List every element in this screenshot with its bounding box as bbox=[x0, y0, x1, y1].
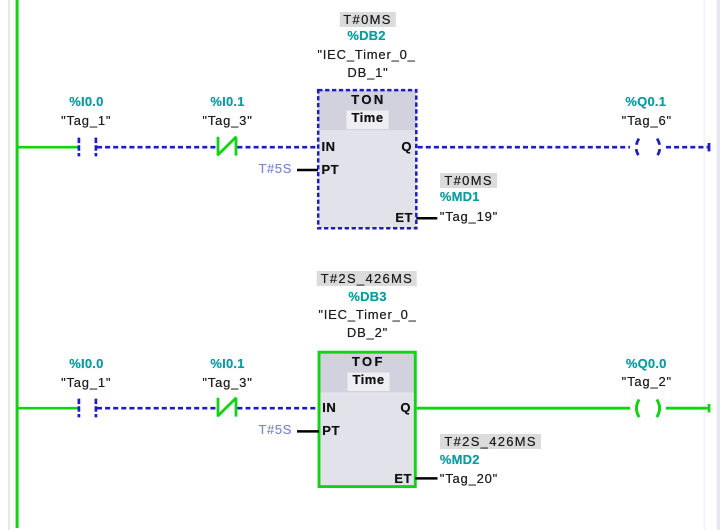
tag name "Tag_20" bbox=[440, 472, 498, 485]
instance name line 2 bbox=[347, 66, 388, 79]
constant T#5S at TON PT bbox=[240, 162, 292, 175]
wire: T#5S to TOF PT (rung 2) bbox=[297, 430, 319, 433]
wire: contact I0.0 to contact I0.1 (rung 2) bbox=[97, 407, 217, 410]
TOF pin Q bbox=[377, 401, 411, 414]
label %Q0.0 (rung 2) bbox=[626, 357, 667, 370]
TON pin IN bbox=[322, 140, 336, 153]
monitor value T#0MS above TON bbox=[339, 12, 395, 27]
wire: TON ET to "Tag_19" (rung 1) bbox=[416, 217, 437, 220]
tag name "Tag_3" (rung 2) bbox=[202, 376, 252, 389]
wire: TOF ET to "Tag_20" (rung 2) bbox=[415, 477, 437, 480]
label %I0.0 (rung 1) bbox=[69, 95, 103, 108]
label %MD1 bbox=[440, 190, 480, 203]
instance name line 2 bbox=[347, 326, 388, 339]
label %I0.1 (rung 1) bbox=[210, 95, 244, 108]
contact %I0.1 "Tag_3" (NC contact, rung 1) bbox=[218, 137, 237, 156]
TOF title bbox=[352, 355, 385, 368]
tag name "Tag_2" (rung 2) bbox=[622, 375, 672, 388]
tag name "Tag_1" (rung 1) bbox=[61, 114, 111, 127]
TOF data-type dropdown box "Time" bbox=[347, 372, 390, 392]
monitor value T#2S_426MS at TOF ET bbox=[440, 434, 541, 449]
TON pin PT bbox=[322, 163, 340, 176]
constant T#5S at TOF PT bbox=[240, 423, 292, 436]
label %Q0.1 (rung 1) bbox=[625, 95, 666, 108]
power rail bbox=[16, 0, 19, 528]
wire: rail to contact I0.0 (rung 1) bbox=[17, 146, 78, 149]
instance name "IEC_Timer_0_ DB_1" line 1 bbox=[317, 48, 415, 61]
TON pin ET bbox=[379, 211, 413, 224]
label %DB3 bbox=[348, 290, 386, 303]
coil %Q0.1 "Tag_6" (rung 1) bbox=[636, 139, 660, 157]
wire: contact I0.1 to TOF IN (rung 2) bbox=[237, 407, 319, 410]
contact %I0.0 "Tag_1" (NO contact, rung 1) bbox=[79, 138, 96, 157]
TON title bbox=[351, 93, 385, 106]
wire: TOF Q to coil Q0.0 (rung 2) bbox=[417, 407, 630, 410]
TON data-type dropdown box "Time" bbox=[346, 110, 389, 130]
coil %Q0.0 "Tag_2" (rung 2) bbox=[636, 400, 659, 418]
label %I0.1 (rung 2) bbox=[210, 357, 244, 370]
timer block TOF body (rung 2) bbox=[319, 352, 415, 486]
TOF type "Time" bbox=[352, 373, 384, 386]
contact %I0.0 "Tag_1" (NO contact, rung 2) bbox=[79, 399, 96, 418]
instance name "IEC_Timer_0_ DB_2" line 1 bbox=[318, 308, 416, 321]
tag name "Tag_19" bbox=[440, 210, 498, 223]
TOF pin PT bbox=[322, 424, 340, 437]
tag name "Tag_1" (rung 2) bbox=[61, 376, 111, 389]
monitor value T#2S_426MS above TOF bbox=[317, 271, 418, 286]
TON type "Time" bbox=[351, 111, 383, 124]
label %I0.0 (rung 2) bbox=[69, 357, 103, 370]
TOF pin ET bbox=[378, 472, 412, 485]
wire: contact I0.1 to TON IN (rung 1) bbox=[237, 146, 318, 149]
contact %I0.1 "Tag_3" (NC contact, rung 2) bbox=[218, 398, 237, 417]
wire: T#5S to TON PT (rung 1) bbox=[297, 169, 318, 172]
tag name "Tag_3" (rung 1) bbox=[202, 114, 252, 127]
wire: contact I0.0 to contact I0.1 (rung 1) bbox=[97, 146, 217, 149]
wire: coil Q0.1 to right rail end (rung 1) bbox=[666, 146, 708, 149]
label %MD2 bbox=[440, 453, 480, 466]
timer block TON body (rung 1) bbox=[318, 90, 416, 228]
label %DB2 bbox=[347, 29, 385, 42]
wire: TON Q to coil Q0.1 (rung 1) bbox=[418, 146, 630, 149]
tag name "Tag_6" (rung 1) bbox=[622, 114, 672, 127]
TOF pin IN bbox=[322, 401, 336, 414]
monitor value T#0MS at TON ET bbox=[440, 173, 496, 188]
wire: coil Q0.0 to right rail end (rung 2) bbox=[666, 407, 708, 410]
TON pin Q bbox=[378, 140, 412, 153]
wire: rail to contact I0.0 (rung 2) bbox=[17, 407, 78, 410]
